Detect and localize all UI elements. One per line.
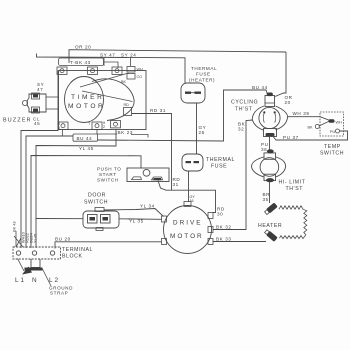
svg-text:RD 31: RD 31 — [150, 108, 166, 113]
ground strap arrow — [22, 267, 32, 275]
wire BU 44 horizontal left of label box — [26, 135, 73, 137]
drive motor M1 body — [164, 206, 212, 254]
wire T-BK 43 to timer terminal — [104, 62, 119, 68]
terminal L2 — [50, 251, 54, 255]
temp switch S4 box — [320, 112, 344, 136]
svg-text:PU: PU — [330, 130, 335, 134]
door switch S2 body — [83, 211, 119, 228]
wire OR 20 down to cycling thermostat — [275, 52, 286, 97]
svg-text:FUSE: FUSE — [211, 164, 227, 170]
push-to-start switch S1 body — [127, 168, 169, 182]
door switch tab top — [95, 208, 104, 212]
svg-text:45: 45 — [34, 121, 40, 126]
svg-text:MOTOR: MOTOR — [68, 103, 105, 110]
wire BU 20 terminal block to motor — [55, 242, 162, 249]
hi-limit bottom terminal — [264, 174, 276, 180]
svg-text:PUSH TO: PUSH TO — [97, 167, 121, 172]
svg-text:35: 35 — [263, 197, 269, 202]
svg-text:DRIVE: DRIVE — [173, 220, 203, 227]
svg-text:BK 32: BK 32 — [216, 225, 232, 230]
svg-text:BK 43: BK 43 — [12, 221, 17, 232]
svg-text:FUSE: FUSE — [196, 72, 211, 77]
svg-text:BK: BK — [308, 126, 313, 130]
timer terminal bottom 2 — [92, 122, 102, 129]
timer U1 box — [59, 71, 147, 130]
buzzer terminal bottom — [32, 107, 40, 113]
wire YL 35 door to motor — [119, 218, 162, 221]
svg-text:MOTOR: MOTOR — [170, 233, 204, 240]
wire YL 45 branch — [36, 130, 116, 249]
svg-text:2: 2 — [103, 125, 105, 129]
svg-text:36: 36 — [261, 147, 267, 152]
timer terminal top 1 — [57, 67, 67, 74]
wire buzzer top to bus — [46, 96, 58, 98]
terminal block TB1 body — [13, 247, 61, 259]
svg-text:RD: RD — [124, 103, 130, 107]
cycling thermostat top terminal — [265, 96, 275, 107]
motor terminal right mid — [208, 227, 213, 233]
heater bottom connector — [264, 229, 278, 242]
svg-text:TIMER: TIMER — [71, 94, 105, 101]
svg-text:TH'ST: TH'ST — [286, 186, 304, 192]
svg-text:BUZZER: BUZZER — [3, 118, 32, 124]
wire OR 20 top bus line — [69, 50, 286, 63]
wire short stub at terminal block — [15, 231, 17, 247]
wire BK 32 cycling to motor — [213, 120, 254, 230]
cycling thermostat S3 body wings — [252, 106, 287, 130]
cycling thermostat bottom terminal — [264, 129, 277, 137]
svg-text:BU 44: BU 44 — [77, 136, 93, 141]
wire YL 34 door to motor — [104, 209, 164, 217]
svg-text:WH 39: WH 39 — [293, 111, 310, 116]
timer wiper arm 2 — [82, 91, 133, 102]
wire WH 39 to temp switch — [288, 116, 321, 118]
push-to-start pad right — [152, 177, 163, 180]
svg-text:TEMP: TEMP — [324, 144, 341, 150]
svg-text:BLOCK: BLOCK — [62, 254, 83, 260]
svg-text:SWITCH: SWITCH — [84, 200, 108, 206]
timer terminal right RD — [124, 108, 132, 116]
thermal fuse (heater) F1 body — [181, 83, 205, 103]
terminal L1 — [16, 251, 20, 255]
svg-text:WH: WH — [336, 121, 342, 125]
motor terminal right lower — [208, 239, 213, 245]
wire left bus buzzer branch vertical — [21, 71, 58, 249]
svg-text:SWITCH: SWITCH — [97, 178, 119, 183]
svg-text:25: 25 — [199, 130, 205, 135]
svg-text:TH'ST: TH'ST — [235, 107, 253, 113]
wire timer BU terminal tap — [62, 130, 64, 137]
svg-text:PU 37: PU 37 — [283, 135, 299, 140]
heater R1 top connector — [264, 202, 278, 215]
svg-text:DOOR: DOOR — [88, 193, 106, 199]
wire PU 37 cycling to temp switch — [272, 131, 348, 140]
hi-limit top terminal — [264, 153, 276, 159]
push-to-start pad left — [132, 177, 142, 180]
thermal fuse (motor) F2 body — [182, 154, 203, 171]
svg-text:YL 45: YL 45 — [79, 146, 94, 151]
svg-text:HEATER: HEATER — [258, 223, 282, 229]
temp switch BK contact — [315, 125, 319, 129]
wire BK 33 heater to motor — [213, 241, 267, 243]
buzzer BZ1 body — [27, 94, 46, 112]
svg-text:L2: L2 — [49, 277, 60, 284]
timer terminal bottom 3 — [111, 121, 121, 128]
svg-text:WH: WH — [137, 68, 143, 72]
svg-text:BU 44: BU 44 — [252, 85, 268, 90]
svg-text:TERMINAL: TERMINAL — [62, 247, 93, 253]
thermal fuse (motor) contacts — [186, 161, 192, 163]
ground strap box — [31, 259, 40, 268]
svg-text:SY 47: SY 47 — [100, 53, 115, 58]
wire buzzer bottom to bus — [46, 108, 58, 110]
svg-text:SWITCH: SWITCH — [320, 151, 344, 157]
motor terminal top — [184, 202, 191, 207]
motor terminal left upper — [162, 216, 167, 222]
svg-text:BK: BK — [121, 80, 126, 84]
svg-text:YL 34: YL 34 — [140, 204, 155, 209]
heater element zigzag — [279, 206, 307, 239]
svg-text:CYCLING: CYCLING — [231, 100, 258, 106]
temp switch WH contact — [329, 119, 335, 122]
door switch contact left — [88, 215, 98, 224]
wire PU 36 cycling to hi-limit — [269, 136, 271, 153]
svg-text:32: 32 — [238, 127, 244, 132]
cycling thermostat inner contacts — [263, 113, 275, 123]
svg-text:BK 23: BK 23 — [118, 130, 134, 135]
ground strap bar — [25, 268, 43, 271]
timer terminal top 3 — [112, 67, 122, 74]
svg-text:START: START — [99, 172, 117, 177]
wire door switch feed line — [36, 218, 83, 220]
svg-text:BU 20: BU 20 — [55, 237, 71, 242]
wire RD 31/30 from push-to-start to motor — [158, 181, 216, 213]
wire GY 16 fuse to motor — [188, 171, 190, 202]
svg-text:T-BK 43: T-BK 43 — [70, 60, 91, 65]
wire SY top bus line — [37, 54, 186, 84]
svg-text:BK 33: BK 33 — [216, 237, 232, 242]
wire SY 24 hook to timer terminal — [130, 58, 132, 66]
svg-text:YL45: YL45 — [33, 234, 38, 243]
timer terminal top 2 — [88, 67, 98, 74]
svg-text:47: 47 — [37, 87, 43, 92]
buzzer mounting circle — [22, 100, 27, 105]
svg-text:SY 24: SY 24 — [121, 53, 136, 58]
hi-limit thermostat S5 body wings — [252, 157, 286, 177]
svg-text:31: 31 — [173, 182, 179, 187]
wire BK 23 from timer bottom terminal — [97, 130, 117, 135]
terminal N — [32, 251, 36, 255]
hi-limit thermostat disc — [260, 158, 279, 177]
motor terminal right upper — [208, 213, 213, 219]
temp switch wiper — [320, 117, 330, 121]
timer terminal bottom 1 — [58, 122, 68, 129]
wire GY 25 — [196, 103, 198, 154]
label box BU 44 — [73, 134, 98, 141]
ground strap callout line — [43, 269, 52, 286]
svg-text:YL 35: YL 35 — [129, 219, 144, 224]
door switch contact right — [101, 215, 111, 224]
svg-text:20: 20 — [285, 100, 291, 105]
timer terminal pair top right — [127, 67, 135, 73]
push-to-start indicator circle — [143, 169, 150, 176]
svg-text:N: N — [32, 277, 39, 284]
svg-text:STRAP: STRAP — [50, 291, 68, 296]
wire crossing into L1 — [14, 236, 23, 247]
svg-text:OR 20: OR 20 — [75, 45, 91, 50]
svg-text:THERMAL: THERMAL — [206, 157, 235, 163]
svg-text:L1: L1 — [15, 277, 26, 284]
svg-text:30: 30 — [217, 212, 223, 217]
wire push-to-start feed line — [31, 156, 141, 249]
motor terminal left lower — [162, 239, 167, 245]
wire BU 44 to cycling thermostat — [98, 90, 269, 141]
temp switch PU contact — [336, 129, 340, 133]
svg-text:16: 16 — [190, 199, 194, 203]
svg-text:THERMAL: THERMAL — [191, 66, 217, 71]
svg-text:HI- LIMIT: HI- LIMIT — [279, 179, 306, 185]
timer wiper arm 1 — [80, 73, 129, 87]
buzzer terminal top — [32, 93, 40, 99]
wire SY 47 hook to timer terminal — [103, 58, 105, 66]
timer motor cam lobe — [92, 79, 134, 121]
wire BR 35 hi-limit to heater — [269, 182, 271, 204]
svg-text:T: T — [88, 122, 91, 126]
svg-text:(HEATER): (HEATER) — [189, 78, 215, 83]
wire BU 44 left branch — [25, 136, 27, 249]
svg-text:CO: CO — [137, 75, 143, 79]
wire RD 31 from timer to push-to-start feed — [132, 114, 172, 191]
cycling thermostat disc — [259, 107, 280, 128]
timer motor blob — [65, 77, 104, 123]
thermal fuse (heater) contacts — [185, 92, 191, 94]
label box T-BK 43 — [59, 58, 104, 66]
